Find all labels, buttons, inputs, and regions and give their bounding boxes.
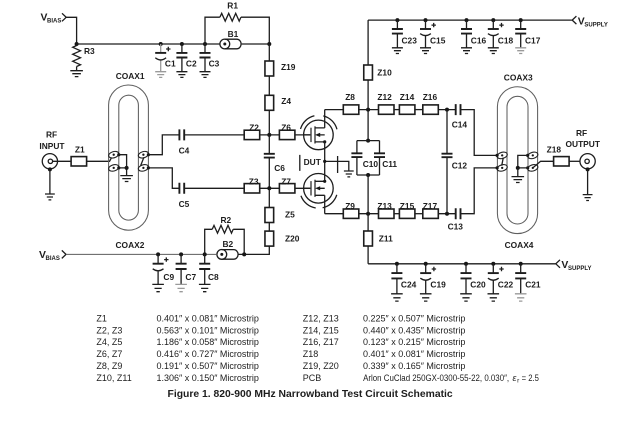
svg-text:C21: C21 [525, 279, 541, 289]
svg-text:0.191″ x 0.507″ Microstrip: 0.191″ x 0.507″ Microstrip [157, 361, 259, 371]
node gate B (Z3/C6/Z5/Z7) [267, 186, 271, 190]
node C2 tap [180, 42, 184, 46]
net VBIAS (top) [41, 13, 67, 25]
node C9 tap [156, 252, 160, 256]
ground (C23) [392, 48, 403, 54]
node C1 tap [159, 42, 163, 46]
net VSUPPLY (bottom) [556, 260, 592, 272]
svg-text:B2: B2 [223, 239, 234, 249]
coax end, COAX3 left [496, 151, 509, 160]
ground (C8) [199, 284, 211, 291]
svg-text:COAX3: COAX3 [504, 72, 533, 82]
wire top supply rail [368, 19, 572, 21]
node drain1/Z10 [366, 108, 370, 112]
wire C5 to Z3 [184, 187, 244, 189]
caption: Figure 1 [168, 389, 453, 400]
capacitor C22 [488, 264, 514, 294]
capacitor C19 [420, 264, 446, 294]
svg-text:C4: C4 [179, 146, 190, 156]
svg-text:Z5: Z5 [285, 209, 295, 219]
svg-text:Z20: Z20 [285, 234, 300, 244]
coax end, COAX1 left [108, 150, 121, 159]
ferrite bead B2 [217, 239, 238, 259]
microstrip Z13 [377, 201, 394, 219]
wire shield ties right [518, 155, 528, 168]
node shield junction right [516, 166, 520, 170]
svg-text:Z3: Z3 [249, 177, 259, 187]
capacitor C2 [176, 44, 197, 72]
node C17 tap [519, 18, 523, 22]
coax end, COAX1 right [138, 150, 150, 159]
svg-text:C24: C24 [401, 279, 417, 289]
microstrip Z16 [423, 92, 439, 114]
svg-text:Z9: Z9 [345, 201, 355, 211]
wire bottom supply rail [368, 263, 555, 265]
svg-text:Z14: Z14 [400, 92, 415, 102]
microstrip Z14 [399, 92, 415, 114]
svg-text:RF: RF [46, 129, 57, 139]
node C19 tap [424, 262, 428, 266]
ground (C3) [200, 72, 211, 78]
wire B1 to node [242, 43, 270, 45]
wire drain Q2 to Z9 row [324, 195, 326, 213]
DUT package outline (dashed) [300, 115, 338, 208]
label COAX3 [504, 72, 533, 82]
ground (C2) [176, 72, 187, 78]
svg-text:C15: C15 [430, 36, 446, 46]
capacitor C5 [179, 183, 190, 209]
microstrip Z18 [547, 145, 570, 166]
svg-text:Z1: Z1 [96, 313, 107, 323]
capacitor C21 [515, 264, 541, 294]
wire drain Q1 to Z8 row [324, 110, 326, 128]
transistor Q1 (top half of DUT) [304, 120, 334, 150]
capacitor C13 [448, 208, 464, 232]
ground (COAX1/2 shields) [120, 176, 133, 182]
wire Z14 to Z16 [415, 109, 423, 111]
wire Z18 to RF output [569, 160, 580, 162]
wire C4 to Z2 [184, 134, 244, 136]
svg-text:COAX1: COAX1 [116, 71, 145, 81]
ground (C15) [420, 48, 431, 54]
node gate A (Z2/Z4/C6/Z6) [267, 133, 271, 137]
node R2/B2 right [242, 252, 246, 256]
coax end, COAX2 right [138, 163, 150, 172]
svg-text:Z6: Z6 [281, 123, 291, 133]
svg-text:C8: C8 [208, 272, 219, 282]
node shield junction [125, 166, 129, 170]
wire bias rail top [77, 43, 220, 45]
node source [323, 160, 326, 163]
node RFout shell [586, 167, 590, 171]
node C12 bottom [445, 212, 449, 216]
microstrip Z12 [377, 92, 394, 114]
svg-text:1.186″ x 0.058″ Microstrip: 1.186″ x 0.058″ Microstrip [157, 337, 259, 347]
wire Z19 to Z4 [268, 76, 270, 95]
coax end, COAX4 right [526, 163, 539, 172]
wire node to Z19 [268, 44, 270, 61]
node C23 tap [395, 18, 399, 22]
capacitor C20 [461, 264, 487, 294]
wire COAX4 to Z18 [533, 161, 554, 168]
svg-text:Arlon CuClad 250GX-0300-55-22,: Arlon CuClad 250GX-0300-55-22, 0.030″, [363, 373, 509, 383]
svg-text:SUPPLY: SUPPLY [584, 22, 607, 28]
svg-text:C20: C20 [470, 279, 486, 289]
wire Z15 to Z17 [415, 213, 423, 215]
svg-text:C13: C13 [448, 222, 464, 232]
label DUT [302, 157, 322, 167]
wire center conductor pass-through (left leg) [502, 158, 504, 166]
svg-text:C3: C3 [209, 58, 220, 68]
label COAX2 [116, 240, 145, 250]
wire Z8 to Z12 [359, 109, 379, 111]
capacitor C24 [391, 264, 416, 294]
svg-text:Z10: Z10 [377, 67, 392, 77]
svg-text:DUT: DUT [304, 157, 322, 167]
wire Z4 to gate node A [268, 110, 270, 135]
ground (R3) [70, 71, 83, 77]
resistor R3 [73, 44, 95, 71]
svg-text:Z16, Z17: Z16, Z17 [303, 337, 339, 347]
svg-text:0.401″ x 0.081″ Microstrip: 0.401″ x 0.081″ Microstrip [363, 349, 465, 359]
svg-text:INPUT: INPUT [39, 141, 65, 151]
svg-text:R2: R2 [221, 215, 232, 225]
capacitor C4 [179, 129, 190, 155]
svg-text:Z16: Z16 [423, 92, 438, 102]
ground (C9) [152, 284, 164, 291]
coax end, COAX3 right [526, 151, 539, 160]
wire RFin shell to ground [49, 169, 51, 194]
capacitor C7 [176, 254, 197, 284]
svg-text:0.440″ x 0.435″ Microstrip: 0.440″ x 0.435″ Microstrip [363, 325, 465, 335]
svg-text:Z19, Z20: Z19, Z20 [303, 361, 339, 371]
microstrip Z20 [265, 231, 300, 246]
microstrip Z3 [244, 177, 260, 193]
node C12 top [445, 108, 449, 112]
wire bias rail bottom [66, 253, 217, 255]
microstrip Z1 [71, 144, 87, 166]
wire Z2 to Z6 [260, 134, 280, 136]
wire Z9 row to Z11 [367, 214, 369, 231]
svg-text:Z12: Z12 [377, 92, 392, 102]
svg-text:0.123″ x 0.215″ Microstrip: 0.123″ x 0.215″ Microstrip [363, 337, 465, 347]
ground (C21, gray) [515, 294, 527, 301]
capacitor C14 [452, 104, 468, 129]
RF INPUT connector J1 [39, 129, 65, 169]
microstrip Z5 [265, 208, 295, 223]
wire Z1 to COAX1 [87, 158, 112, 162]
svg-text:B1: B1 [228, 29, 239, 39]
node C10/C11 bottom [366, 173, 370, 177]
node C10/C11 top [366, 139, 370, 143]
svg-text:C19: C19 [430, 279, 446, 289]
ground (C16) [461, 48, 472, 54]
microstrip Z9 [343, 201, 359, 219]
svg-text:Z14, Z15: Z14, Z15 [303, 325, 339, 335]
wire Z3 to Z7 [260, 187, 280, 189]
capacitor C6 [264, 135, 285, 188]
node C8 / R2 tap [203, 252, 207, 256]
transistor Q2 (bottom half of DUT) [304, 174, 334, 204]
svg-text:BIAS: BIAS [47, 18, 61, 24]
ground (DUT source) [344, 171, 354, 177]
node C18 tap [491, 18, 495, 22]
wire C14 to COAX3 [461, 110, 497, 156]
wire Z8 row to C10/C11 [367, 110, 369, 141]
svg-text:R1: R1 [227, 1, 238, 11]
wire Z7 to gate 2 [295, 187, 311, 189]
svg-text:Figure 1. 820-900 MHz Narrowba: Figure 1. 820-900 MHz Narrowband Test Ci… [168, 389, 453, 400]
wire drain2 to Z9 [325, 213, 344, 215]
ground (RF input) [45, 194, 55, 200]
svg-text:COAX4: COAX4 [505, 240, 534, 250]
wire common source [325, 142, 349, 181]
svg-text:Z4, Z5: Z4, Z5 [96, 337, 122, 347]
wire to shield ground [517, 168, 519, 177]
capacitor C11 [357, 141, 398, 175]
node bias-top [75, 42, 79, 46]
svg-text:Z19: Z19 [281, 62, 296, 72]
svg-text:Z11: Z11 [379, 234, 393, 244]
svg-text:C16: C16 [471, 36, 487, 46]
ground (C17, gray) [515, 48, 526, 54]
svg-text:C17: C17 [525, 36, 541, 46]
node C22 tap [491, 262, 495, 266]
wire Z20 to bias rail [238, 246, 269, 254]
wire VBIAS entry to node [66, 17, 76, 44]
svg-text:Z18: Z18 [303, 349, 319, 359]
ground (C19) [420, 294, 432, 301]
net VBIAS (bottom) [39, 250, 66, 262]
svg-text:Z13: Z13 [377, 201, 392, 211]
wire COAX2 right to C5 [148, 168, 179, 188]
node C3 / R1 tap [203, 42, 207, 46]
wire Z17 to C13 [438, 213, 455, 215]
ground (RF output) [583, 195, 593, 201]
svg-text:RF: RF [576, 128, 587, 138]
svg-text:= 2.5: = 2.5 [522, 373, 539, 383]
wire center conductor pass-through (right leg) [141, 157, 144, 165]
microstrip Z15 [399, 201, 415, 219]
svg-text:0.563″ x 0.101″ Microstrip: 0.563″ x 0.101″ Microstrip [157, 325, 259, 335]
capacitor C12 [442, 110, 468, 214]
ground (C24) [391, 294, 403, 301]
capacitor C23 [392, 20, 417, 48]
svg-text:0.339″ x 0.165″ Microstrip: 0.339″ x 0.165″ Microstrip [363, 361, 465, 371]
node drain2/Z11 [366, 212, 370, 216]
wire supply to Z10 [367, 20, 369, 65]
svg-text:C23: C23 [402, 36, 418, 46]
microstrip Z4 [265, 95, 291, 110]
svg-text:C12: C12 [452, 161, 468, 171]
svg-text:0.225″ x 0.507″ Microstrip: 0.225″ x 0.507″ Microstrip [363, 313, 465, 323]
coax end, COAX4 left [496, 163, 509, 172]
node RFin shell [48, 167, 52, 171]
microstrip Z6 [279, 123, 295, 140]
svg-text:R3: R3 [84, 46, 95, 56]
node C15 tap [424, 18, 428, 22]
svg-text:C1: C1 [165, 58, 176, 68]
svg-text:Z10, Z11: Z10, Z11 [96, 373, 131, 383]
microstrip Z19 [265, 61, 296, 76]
svg-text:C22: C22 [498, 279, 514, 289]
wire C13 to COAX4 [461, 168, 497, 214]
svg-text:Z15: Z15 [400, 201, 415, 211]
microstrip Z11 [364, 231, 393, 246]
capacitor C8 [199, 254, 219, 284]
wire COAX1 right to C4 [148, 135, 179, 155]
resistor R1 [205, 1, 269, 44]
node R1/B1/Z19 [267, 42, 271, 46]
svg-text:C14: C14 [452, 119, 468, 129]
microstrip Z7 [279, 177, 295, 193]
svg-text:C9: C9 [163, 272, 174, 282]
microstrip Z10 [364, 65, 392, 80]
svg-text:C7: C7 [185, 272, 196, 282]
microstrip Z8 [343, 92, 359, 114]
ground (C7, gray) [175, 284, 187, 291]
net VSUPPLY (top) [572, 16, 608, 28]
capacitor C9 [153, 254, 175, 284]
svg-text:C10: C10 [363, 159, 379, 169]
coax balun COAX1 (outer sheath) [109, 85, 149, 230]
wire shield ties left [119, 155, 127, 176]
svg-text:C2: C2 [186, 58, 197, 68]
capacitor C15 [420, 20, 446, 48]
svg-text:Z17: Z17 [423, 201, 438, 211]
wire Z16 to C14 [438, 109, 455, 111]
ground (C22) [488, 294, 500, 301]
svg-text:C5: C5 [179, 199, 190, 209]
coax end, COAX2 left [108, 163, 121, 172]
capacitor C3 [200, 44, 220, 72]
svg-text:Z1: Z1 [75, 144, 85, 154]
wire Z12 to Z14 [394, 109, 399, 111]
svg-text:BIAS: BIAS [46, 256, 60, 262]
coax balun COAX3/COAX4 (outer sheath) [497, 87, 537, 234]
wire RFin to Z1 [53, 160, 72, 162]
wire Z9 to Z13 [359, 213, 379, 215]
microstrip Z17 [423, 201, 439, 219]
ground (C20) [460, 294, 472, 301]
svg-text:r: r [517, 377, 520, 384]
svg-text:Z12, Z13: Z12, Z13 [303, 313, 339, 323]
capacitor C10 [351, 141, 379, 175]
wire node B to Z5 [268, 188, 270, 207]
wire Z11 to bottom supply rail [367, 246, 369, 264]
ground (C18) [488, 48, 499, 54]
node C7 tap [179, 252, 183, 256]
label COAX4 [505, 240, 534, 250]
svg-text:Z2, Z3: Z2, Z3 [96, 325, 122, 335]
RF OUTPUT connector J2 [566, 128, 601, 169]
wire Z5 to Z20 [268, 223, 270, 232]
wire RFout shell to ground [587, 169, 589, 194]
svg-text:0.401″ x 0.081″ Microstrip: 0.401″ x 0.081″ Microstrip [157, 313, 259, 323]
svg-text:OUTPUT: OUTPUT [566, 139, 601, 149]
node C24 tap [395, 262, 399, 266]
wire Z6 to gate 1 [295, 134, 311, 136]
svg-text:C6: C6 [274, 163, 285, 173]
svg-text:0.416″ x 0.727″ Microstrip: 0.416″ x 0.727″ Microstrip [157, 349, 259, 359]
svg-text:Z6, Z7: Z6, Z7 [96, 349, 122, 359]
svg-text:COAX2: COAX2 [116, 240, 145, 250]
capacitor C16 [461, 20, 487, 48]
wire drain1 to Z8 [325, 109, 344, 111]
svg-text:C11: C11 [382, 159, 397, 169]
svg-text:1.306″ x 0.150″ Microstrip: 1.306″ x 0.150″ Microstrip [157, 373, 259, 383]
ground (C1, gray) [155, 72, 166, 78]
capacitor C17 [515, 20, 541, 48]
wire Z13 to Z15 [394, 213, 399, 215]
capacitor C1 [155, 44, 176, 72]
node C21 tap [519, 262, 523, 266]
ferrite bead B1 [220, 29, 241, 49]
node C20 tap [464, 262, 468, 266]
svg-text:Z18: Z18 [547, 145, 562, 155]
microstrip Z2 [244, 123, 260, 140]
svg-text:PCB: PCB [303, 373, 322, 383]
svg-text:C18: C18 [498, 36, 514, 46]
svg-text:Z8, Z9: Z8, Z9 [96, 361, 122, 371]
svg-text:SUPPLY: SUPPLY [568, 266, 591, 272]
svg-text:Z7: Z7 [281, 177, 291, 187]
svg-text:Z4: Z4 [281, 96, 291, 106]
wire C10/C11 to Z9 row [367, 175, 369, 214]
ground (COAX3/4 shields) [512, 177, 525, 183]
wire Z10 to Z8 row [367, 80, 369, 110]
capacitor C18 [488, 20, 514, 48]
resistor R2 [205, 215, 245, 255]
node C16 tap [465, 18, 469, 22]
table: microstrip dimensions [96, 313, 538, 384]
svg-text:Z2: Z2 [249, 123, 259, 133]
label COAX1 [116, 71, 145, 81]
svg-text:Z8: Z8 [345, 92, 355, 102]
